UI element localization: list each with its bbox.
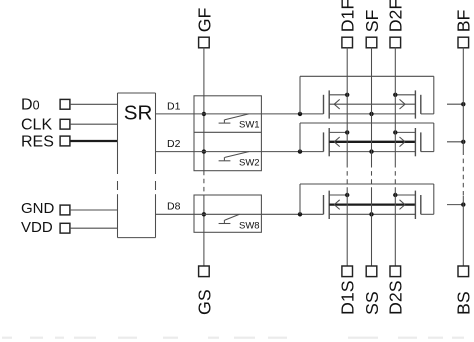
node row 1 D1 drain: [345, 93, 349, 97]
terminal D2F: [390, 37, 401, 48]
svg-text:SS: SS: [362, 291, 382, 315]
node SW2 input: [202, 149, 206, 153]
switch SW1: [225, 114, 249, 120]
node row 2 body at BF: [461, 140, 465, 144]
wire BF dashed break: [462, 151, 464, 197]
arrow row 1 body right: [400, 99, 406, 104]
node SW1 input: [202, 112, 206, 116]
terminal GS: [199, 266, 210, 277]
transistor Q3b channel bar: [414, 191, 416, 219]
node row 2 D1 drain: [345, 130, 349, 134]
switch SW2: [225, 152, 249, 158]
wire row 2 source line: [329, 151, 415, 153]
wire GND to SR: [70, 209, 118, 211]
svg-text:D2: D2: [167, 138, 181, 150]
wire RES to SR (bold): [70, 140, 118, 142]
node row 2 gate junction: [298, 149, 302, 153]
svg-text:D8: D8: [167, 200, 181, 212]
wire row 3 drain stub left: [329, 194, 347, 196]
svg-text:GND: GND: [21, 200, 55, 217]
wire row 2 drain stub left: [329, 131, 347, 133]
wire GF down to SW box: [203, 48, 205, 96]
wire D1S vertical: [346, 191, 348, 267]
node row 2 D2 drain: [393, 130, 397, 134]
wire D2F vertical: [394, 48, 396, 164]
wire row 2 body line: [329, 141, 415, 143]
terminal SF: [366, 37, 377, 48]
svg-text:BS: BS: [454, 291, 474, 315]
transistor Q1b gate bar: [420, 95, 422, 114]
transistor Q3b gate bar: [420, 195, 422, 214]
svg-text:SR: SR: [124, 102, 153, 125]
svg-text:D1F: D1F: [338, 0, 358, 32]
wire row 2 drain stub right: [395, 131, 415, 133]
wire SF vertical: [371, 48, 373, 164]
transistor Q3a gate bar: [323, 195, 325, 214]
arrow row 3 body right: [400, 200, 406, 205]
wire row 1 source line: [329, 113, 415, 115]
terminal D2S: [390, 266, 401, 277]
svg-text:D1S: D1S: [338, 280, 358, 315]
wire SW1 to row 1 gates: [195, 113, 324, 115]
transistor Q1b channel bar: [414, 90, 416, 118]
svg-text:D0: D0: [21, 96, 40, 113]
wire row 1 drain stub right: [395, 94, 415, 96]
divider SW1/SW2: [194, 131, 261, 133]
svg-text:GF: GF: [194, 7, 214, 32]
terminal CLK: [60, 119, 70, 129]
arrow row 3 body left: [334, 200, 340, 205]
node row 3 source to SF: [369, 212, 373, 216]
terminal GF: [199, 37, 210, 48]
shift register SR box (broken outline): [118, 92, 156, 94]
wire D1: [156, 113, 195, 115]
wire D8: [156, 213, 195, 215]
svg-text:SW8: SW8: [239, 220, 260, 231]
arrow row 2 body left: [334, 137, 340, 142]
wire VDD to SR: [70, 227, 118, 229]
wire D2: [156, 151, 195, 153]
node SW8 input: [202, 212, 206, 216]
transistor Q2a channel bar: [328, 128, 330, 156]
terminal GND: [60, 205, 70, 215]
terminal D0: [60, 99, 70, 109]
transistor Q2b channel bar: [414, 128, 416, 156]
wire row 1 drain stub left: [329, 94, 347, 96]
wire row 3 body line: [329, 203, 415, 205]
terminal BF: [458, 37, 469, 48]
wire row 2 gate ring: [299, 123, 301, 152]
wire row 3 body to BF stub: [447, 204, 463, 206]
switch box SW8: [194, 195, 261, 232]
wire SS vertical: [371, 191, 373, 267]
switch SW8: [225, 214, 240, 220]
svg-text:CLK: CLK: [21, 117, 52, 134]
cropped caption remnants: [2, 337, 12, 339]
node row 1 D2 drain: [393, 93, 397, 97]
terminal RES: [60, 136, 70, 146]
transistor Q1a channel bar: [328, 90, 330, 118]
node row 1 source to SF: [369, 112, 373, 116]
wire row 3 source line: [329, 213, 415, 215]
terminal SS: [366, 266, 377, 277]
wire D1F dashed break: [346, 163, 348, 191]
svg-text:SF: SF: [362, 9, 382, 32]
node row 3 gate junction: [298, 212, 302, 216]
transistor Q2b gate bar: [420, 132, 422, 151]
node row 1 body at BF: [461, 102, 465, 106]
svg-text:SW2: SW2: [239, 157, 260, 168]
wire SW2 to row 2 gates: [195, 151, 324, 153]
svg-text:RES: RES: [21, 134, 54, 151]
terminal BS: [458, 266, 469, 277]
svg-text:VDD: VDD: [21, 219, 53, 236]
wire D1F vertical: [346, 48, 348, 164]
wire D2S vertical: [394, 191, 396, 267]
wire row 1 body to BF stub: [447, 103, 463, 105]
node row 1 gate junction: [298, 112, 302, 116]
wire GF through SW1/SW2 box: [203, 96, 205, 171]
terminal D1S: [342, 266, 353, 277]
svg-text:BF: BF: [454, 9, 474, 32]
wire BF vertical: [462, 48, 464, 151]
node row 2 source to SF: [369, 149, 373, 153]
transistor Q3a channel bar: [328, 191, 330, 219]
terminal VDD: [60, 223, 70, 233]
svg-text:D2F: D2F: [386, 0, 406, 32]
node row 3 body at BF: [461, 202, 465, 206]
transistor Q2a gate bar: [323, 132, 325, 151]
transistor Q1a gate bar: [323, 95, 325, 114]
wire GF through SW8 box to GS: [203, 195, 205, 266]
wire CLK to SR: [70, 123, 118, 125]
wire GF dashed break: [203, 171, 205, 195]
arrow row 2 body right: [400, 137, 406, 142]
svg-text:D1: D1: [167, 100, 181, 112]
wire row 3 drain stub right: [395, 194, 415, 196]
node row 3 D2 drain: [393, 193, 397, 197]
wire row 1 body line: [329, 103, 415, 105]
svg-text:SW1: SW1: [239, 120, 260, 131]
wire D0 to SR: [70, 103, 118, 105]
wire row 2 body to BF stub: [447, 141, 463, 143]
wire SF dashed break: [371, 163, 373, 191]
wire D2F dashed break: [394, 163, 396, 191]
wire row 3 gate ring: [299, 184, 301, 214]
wire row 1 gate ring: [299, 76, 301, 114]
svg-text:GS: GS: [194, 289, 214, 315]
wire SW8 to row 3 gates: [195, 213, 324, 215]
arrow row 1 body left: [334, 99, 340, 104]
switch box SW1/SW2: [194, 96, 261, 171]
svg-text:D2S: D2S: [386, 280, 406, 315]
wire BS vertical: [462, 196, 464, 266]
terminal D1F: [342, 37, 353, 48]
node row 3 D1 drain: [345, 193, 349, 197]
